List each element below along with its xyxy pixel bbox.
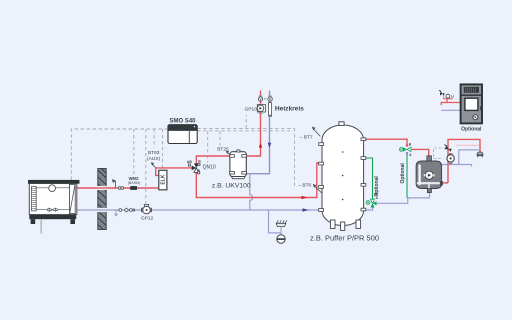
heat pump module tank bbox=[416, 156, 442, 193]
wire red QN10 A-port to buffer mid stub bbox=[196, 163, 322, 198]
Heizkreis shutoff valve on flow bbox=[258, 96, 262, 101]
signal drop to WMZ bbox=[133, 129, 135, 176]
union circles on supply pipe bbox=[118, 187, 121, 190]
wire blue heat-pump return to optional valve bbox=[377, 192, 430, 203]
wire blue optional valve to buffer lower stub bbox=[364, 207, 373, 210]
wire blue right of module tank bbox=[440, 165, 472, 167]
optional valve lower (green) bbox=[366, 192, 379, 207]
check valve on return bbox=[119, 208, 135, 212]
wire red stove supply to ELK bbox=[77, 187, 159, 189]
safety valve group at indoor unit bbox=[439, 90, 453, 98]
sensor BT7 probe bbox=[312, 127, 320, 137]
controller SMO S40 bbox=[168, 125, 197, 144]
pump on heat pump flow bbox=[447, 154, 454, 164]
signal drop to GP10 bbox=[245, 115, 247, 129]
wire blue branch to expansion vessel bbox=[269, 210, 282, 235]
arrow red up to Heizkreis bbox=[259, 143, 263, 148]
wire red heat-pump loop with expansion vessel bbox=[448, 139, 480, 183]
pump GP10 bbox=[257, 105, 265, 114]
wire green optional from buffer upper stub to lower valve bbox=[364, 158, 373, 200]
boiler internal top pipe bbox=[36, 187, 69, 189]
wire blue stub into indoor unit bbox=[441, 109, 461, 111]
svg-text:GP12: GP12 bbox=[141, 215, 154, 221]
signal drop to ELK bbox=[162, 129, 164, 170]
valve QN10 bbox=[188, 163, 200, 174]
buffer tank Puffer P/PR 500 bbox=[319, 122, 366, 231]
svg-text:– BT7: – BT7 bbox=[300, 135, 313, 141]
wire red indoor unit flow stub bbox=[441, 98, 461, 106]
signal drop to BT25 bbox=[219, 131, 221, 146]
drain tee on return bbox=[114, 210, 118, 216]
optional valve upper (green) bbox=[399, 143, 412, 157]
indoor unit (optional) bbox=[461, 84, 482, 123]
electric heater ELK bbox=[159, 170, 167, 190]
svg-text:QN10: QN10 bbox=[203, 164, 216, 170]
wire blue UKV100 downcomer with hop over red bbox=[250, 174, 253, 210]
signal bus (dashed) right side, two parallel runs bbox=[197, 128, 294, 130]
wire red buffer top to optional valve QN bbox=[364, 139, 407, 146]
signal drop to BT63 bbox=[153, 129, 155, 148]
svg-text:Optional: Optional bbox=[461, 127, 482, 133]
expansion vessel group bbox=[276, 220, 287, 243]
sensor flag on supply pipe bbox=[112, 179, 116, 188]
arrow blue down from Heizkreis bbox=[268, 143, 272, 148]
signal drop to BT7/BT6 bbox=[294, 128, 296, 186]
boiler door bbox=[70, 184, 76, 213]
svg-text:– BT6: – BT6 bbox=[298, 183, 311, 189]
boiler internal bottom pipe bbox=[36, 209, 69, 211]
heat meter WMZ bbox=[130, 186, 137, 190]
boiler drain valve bowtie bbox=[47, 208, 57, 211]
wire red optional valve to module tank top bbox=[410, 149, 429, 156]
svg-text:z.B. UKV100: z.B. UKV100 bbox=[212, 182, 251, 189]
wire red ELK outlet to QN10 bbox=[156, 168, 192, 176]
svg-text:AB: AB bbox=[187, 160, 192, 164]
wire red UKV100 to Heizkreis riser bbox=[246, 91, 261, 157]
svg-text:ELK: ELK bbox=[160, 174, 166, 184]
wall with hatching bbox=[97, 169, 107, 230]
svg-text:BT63: BT63 bbox=[148, 150, 160, 156]
boiler air vent circle bbox=[49, 185, 56, 192]
svg-text:SMO S40: SMO S40 bbox=[169, 118, 196, 124]
wire faint alternative flow bbox=[456, 144, 479, 146]
signal drop to GP12 bbox=[145, 129, 147, 204]
svg-text:Optional: Optional bbox=[400, 163, 406, 184]
signal bus (dashed) from SMO S40 left side bbox=[71, 129, 168, 180]
arrow blue into buffer bbox=[303, 208, 309, 212]
expansion vessel MAG bbox=[477, 152, 483, 158]
wire blue return stove-to-buffer bbox=[77, 209, 322, 211]
sensor BT6 probe bbox=[313, 184, 323, 194]
sensor BT63 probe bbox=[151, 162, 156, 167]
wire red into module tank side bbox=[441, 182, 448, 184]
signal drop to QN10 bbox=[207, 131, 209, 163]
dashed link to heat-pump vessel bbox=[434, 148, 447, 158]
wire blue Heizkreis return down to UKV100 bbox=[246, 91, 269, 174]
svg-text:BT25: BT25 bbox=[217, 146, 229, 152]
tank UKV100 bbox=[230, 150, 247, 179]
Heizkreis shutoff valve on return bbox=[264, 96, 272, 101]
boiler heat exchanger coil bbox=[32, 186, 37, 210]
wood boiler bbox=[28, 180, 80, 224]
svg-text:Heizkreis: Heizkreis bbox=[275, 106, 304, 113]
wire red QN10 B-port to UKV100 bbox=[196, 156, 230, 164]
svg-text:(AUX): (AUX) bbox=[147, 156, 160, 162]
wire green optional from buffer to valve QN (upper) bbox=[406, 154, 408, 198]
svg-text:Optional: Optional bbox=[374, 176, 380, 197]
arrow red into buffer bbox=[302, 196, 308, 200]
svg-text:(BX300): (BX300) bbox=[128, 181, 140, 185]
boiler flue stub bbox=[40, 219, 42, 234]
svg-text:GP10: GP10 bbox=[245, 106, 258, 112]
balancing valve on return bbox=[268, 103, 272, 117]
sensor BT25 probe bbox=[226, 151, 231, 156]
shutoff valve on heat pump flow bbox=[444, 145, 452, 152]
wire blue up to expansion vessel MAG bbox=[459, 150, 479, 165]
pump GP12 bbox=[142, 204, 152, 213]
svg-text:z.B. Puffer P/PR 500: z.B. Puffer P/PR 500 bbox=[310, 233, 379, 242]
